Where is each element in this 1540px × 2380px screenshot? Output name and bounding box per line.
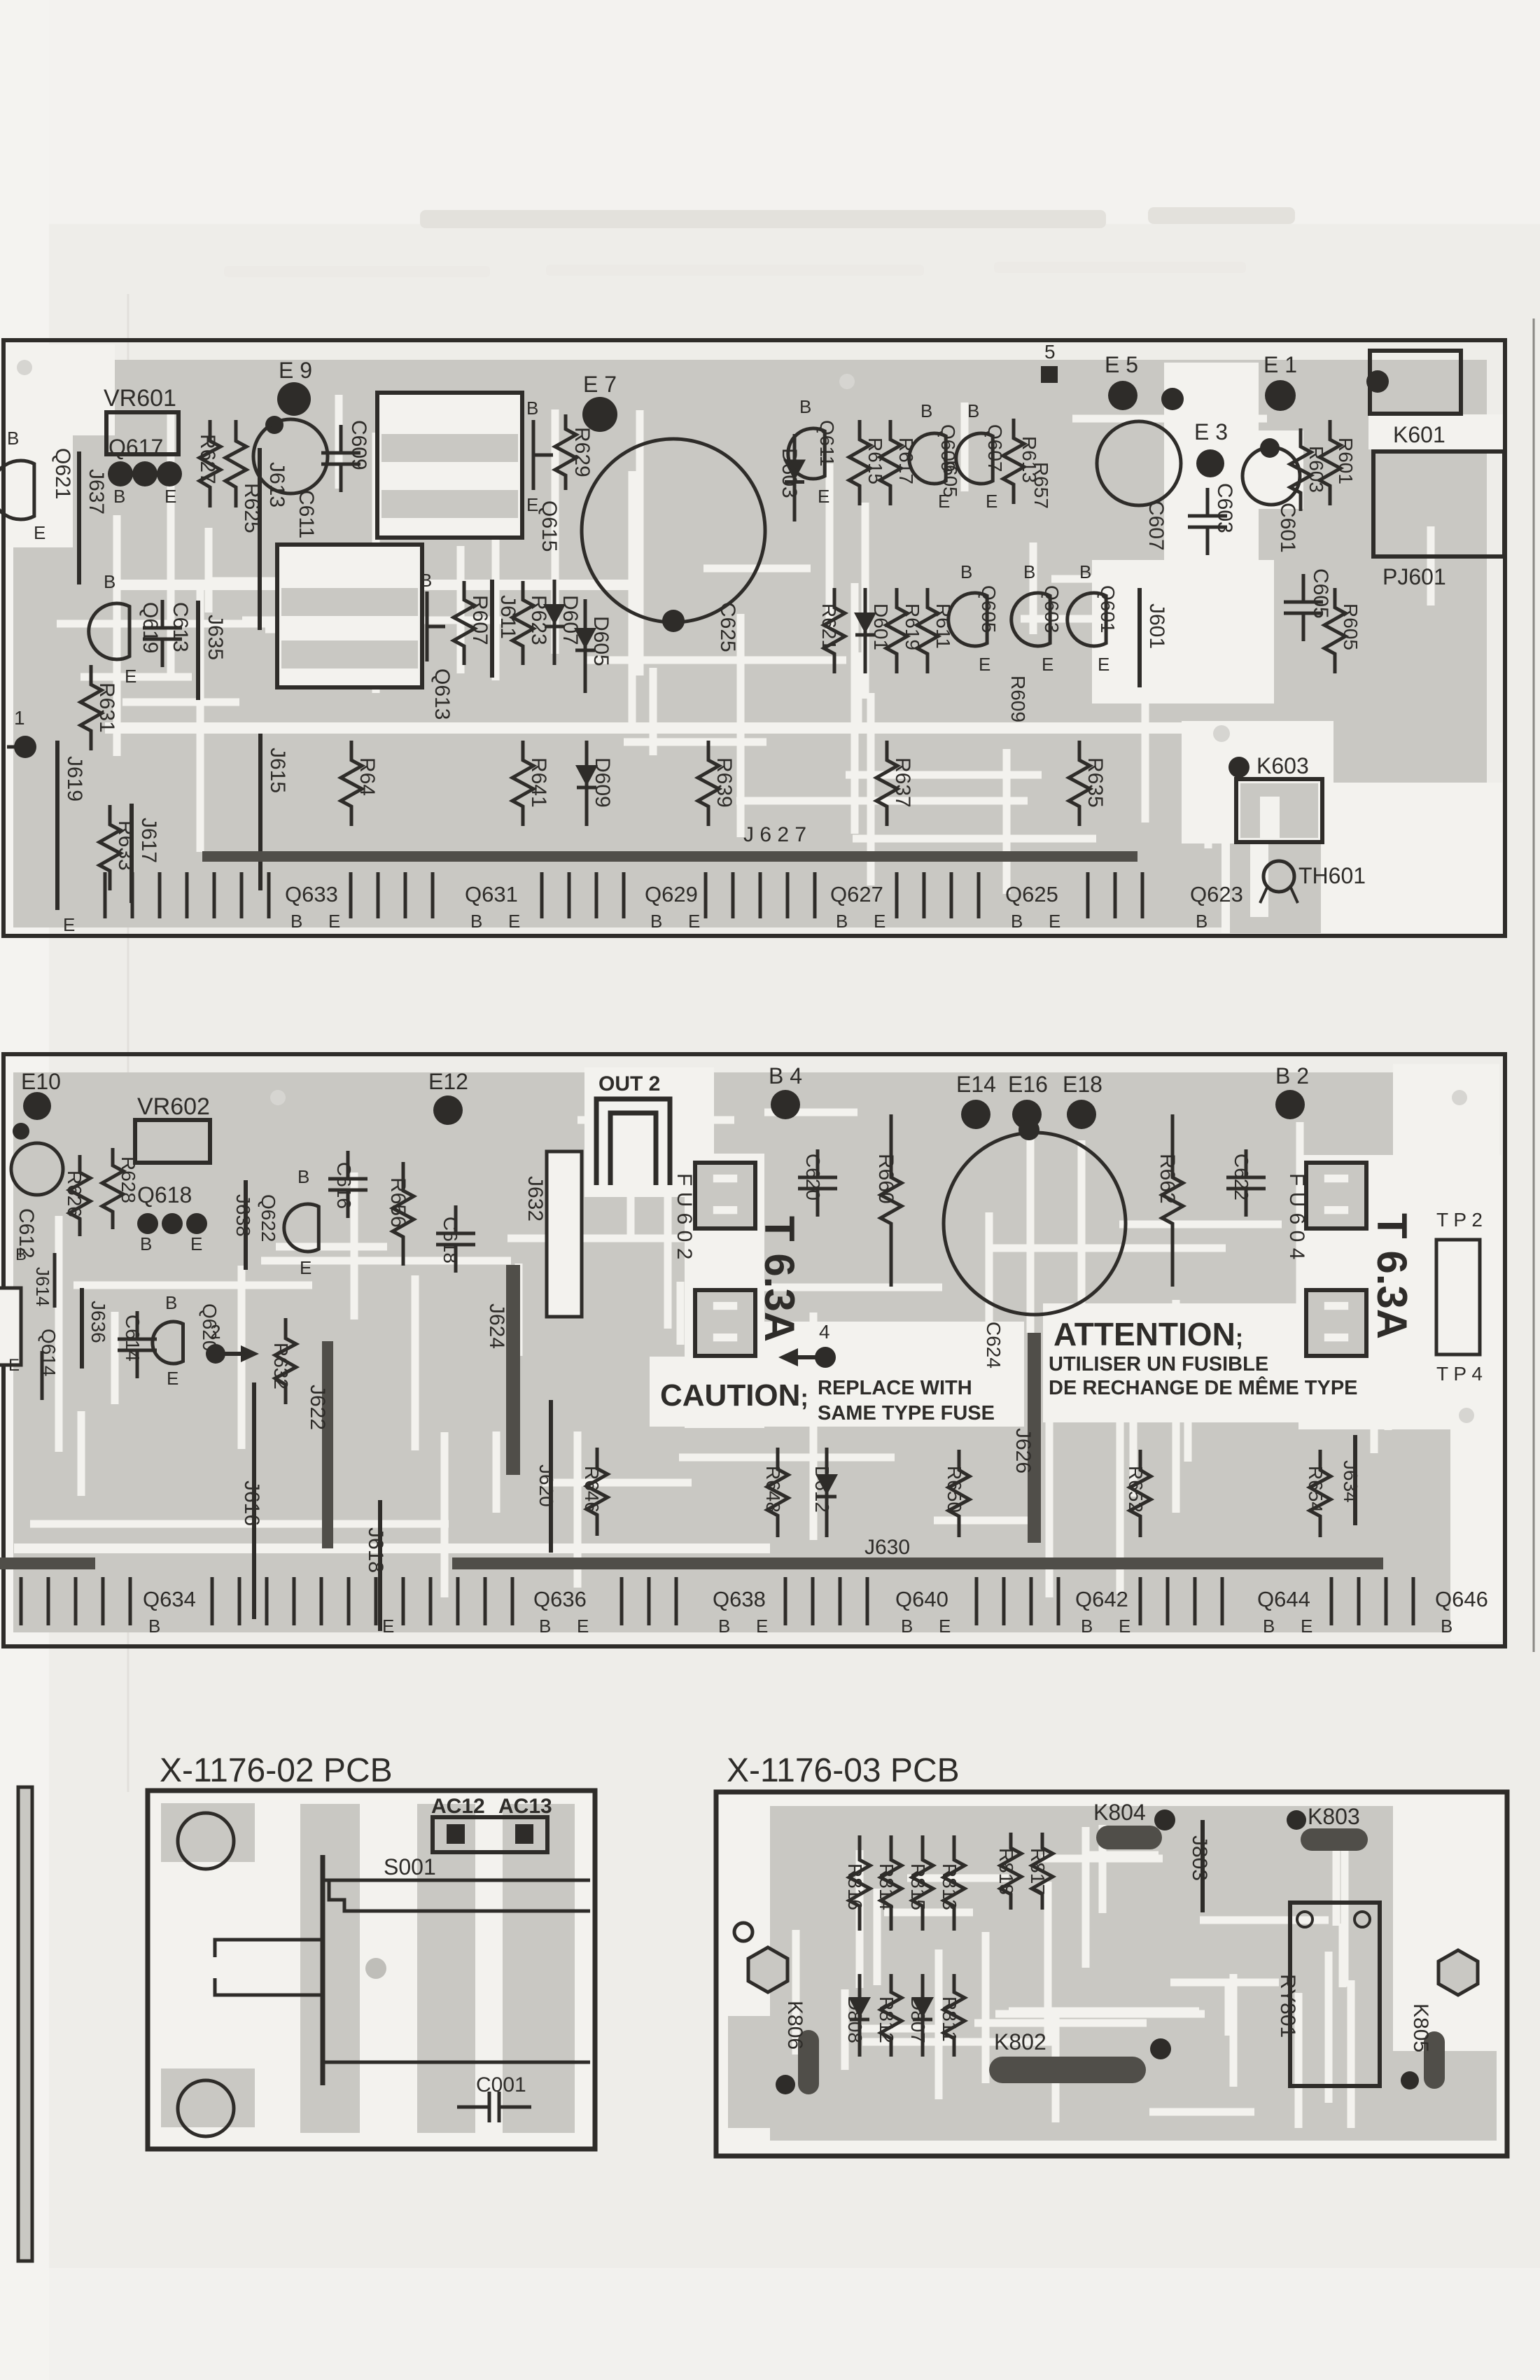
resistor R818	[1000, 1833, 1021, 1910]
dot K802	[1150, 2038, 1171, 2059]
svg-text:D808: D808	[844, 1996, 866, 2043]
svg-text:J630: J630	[864, 1536, 910, 1559]
svg-text:C614: C614	[122, 1315, 143, 1361]
wire J803	[1200, 1820, 1205, 1912]
svg-text:B: B	[526, 398, 538, 419]
bus bar J624	[506, 1265, 520, 1475]
svg-text:E: E	[190, 1233, 202, 1254]
resistor R605	[1324, 588, 1345, 673]
wire J611	[490, 580, 494, 678]
top board white zone below C607	[1092, 560, 1274, 703]
svg-text:R657: R657	[1030, 462, 1052, 509]
svg-text:5: 5	[1044, 341, 1056, 363]
svg-text:R660: R660	[874, 1154, 897, 1204]
via below E10	[13, 1123, 29, 1140]
top board white corner right	[1323, 783, 1502, 933]
svg-text:E: E	[526, 494, 538, 515]
transistor Q617 dot3	[157, 461, 182, 486]
diode D603	[793, 434, 797, 521]
svg-text:D609: D609	[591, 757, 614, 808]
resistor R631	[80, 665, 101, 750]
svg-text:Q601: Q601	[1097, 585, 1119, 633]
wire J614	[53, 1253, 57, 1308]
svg-text:E10: E10	[21, 1069, 61, 1094]
svg-text:R639: R639	[713, 757, 736, 808]
svg-text:E: E	[164, 486, 176, 507]
svg-text:C613: C613	[169, 602, 192, 652]
capacitor C618	[454, 1205, 458, 1233]
diode D607	[553, 580, 556, 665]
bus bar J627	[202, 851, 1137, 862]
svg-text:B: B	[104, 571, 115, 592]
middle board white corner bottom-right	[1450, 1400, 1502, 1641]
copper right spur X03	[1393, 2051, 1497, 2141]
terminal AC12 square	[447, 1824, 465, 1844]
svg-text:ATTENTION;: ATTENTION;	[1053, 1316, 1243, 1352]
wire J634	[1353, 1435, 1357, 1525]
top board white channel mid-left	[119, 580, 637, 590]
resistor R627	[199, 420, 220, 507]
svg-text:E 9: E 9	[279, 358, 312, 383]
relay K603 interior slot	[1260, 797, 1280, 838]
svg-text:Q631: Q631	[465, 882, 518, 906]
cap dot near C601	[1260, 438, 1280, 458]
svg-text:E: E	[508, 911, 520, 932]
scan fold line	[127, 294, 129, 1792]
svg-text:Q621: Q621	[51, 448, 74, 499]
svg-text:B: B	[290, 911, 302, 932]
dot K804	[1154, 1809, 1175, 1830]
test point E16	[1012, 1100, 1042, 1129]
pill K804	[1096, 1826, 1162, 1849]
resistor R813	[944, 1835, 965, 1931]
capacitor C616	[346, 1151, 350, 1179]
diode D808	[858, 1974, 862, 2057]
svg-text:AC13: AC13	[498, 1795, 552, 1818]
wire J637	[77, 451, 81, 584]
svg-text:Q634: Q634	[143, 1587, 196, 1611]
capacitor C605	[1302, 574, 1305, 602]
svg-text:R629: R629	[570, 427, 594, 477]
copper left spur X03	[728, 2016, 770, 2128]
middle board white zone attention	[1043, 1303, 1393, 1422]
svg-text:Q638: Q638	[713, 1587, 766, 1611]
svg-text:F U 6 0 4: F U 6 0 4	[1285, 1173, 1308, 1259]
resistor R635	[1069, 741, 1090, 826]
svg-text:B: B	[148, 1616, 160, 1637]
svg-text:T P 4: T P 4	[1436, 1363, 1483, 1385]
trace bar1 X02	[300, 1804, 360, 2133]
svg-text:B: B	[901, 1616, 913, 1637]
trimmer VR601	[106, 412, 178, 454]
jack PJ601 outline	[1373, 451, 1504, 556]
svg-text:B: B	[1263, 1616, 1275, 1637]
middle board white channel above pinrow	[14, 1543, 770, 1553]
svg-text:D612: D612	[811, 1466, 833, 1513]
svg-text:R632: R632	[270, 1343, 292, 1389]
capacitor C609	[339, 425, 343, 453]
switch S001 wire top	[323, 1879, 590, 1882]
middle board white zone caution2	[650, 1357, 762, 1427]
svg-text:R605: R605	[1340, 603, 1361, 650]
dot K803	[1287, 1810, 1306, 1830]
middle board white zone OUT2	[584, 1067, 714, 1197]
relay RY801 outline	[1290, 1903, 1380, 2086]
hex standoff left	[748, 1947, 787, 1992]
slot J632	[547, 1151, 582, 1317]
diode D612	[825, 1448, 829, 1537]
svg-text:R652: R652	[1125, 1466, 1147, 1513]
thermistor TH601	[1263, 861, 1294, 892]
node 1 wire	[7, 745, 25, 749]
via near K601	[1366, 370, 1389, 393]
resistor R639	[698, 741, 719, 826]
top board routing channels	[492, 476, 500, 680]
top board white pocket left	[6, 344, 73, 547]
svg-text:C616: C616	[333, 1162, 355, 1209]
svg-text:4: 4	[819, 1321, 830, 1343]
svg-text:E16: E16	[1008, 1072, 1048, 1097]
svg-text:C601: C601	[1276, 503, 1299, 553]
wire J613	[258, 448, 262, 630]
svg-text:B: B	[967, 400, 979, 421]
svg-text:Q605: Q605	[978, 585, 1000, 633]
bus bar J622	[322, 1341, 333, 1548]
svg-text:E 1: E 1	[1263, 352, 1297, 377]
svg-text:S001: S001	[384, 1854, 436, 1879]
resistor R812	[881, 1974, 902, 2057]
svg-text:Q613: Q613	[430, 668, 454, 720]
svg-text:Q627: Q627	[830, 882, 883, 906]
svg-text:Q636: Q636	[533, 1587, 587, 1611]
pin row middle board	[20, 1577, 23, 1625]
resistor R617	[880, 420, 901, 505]
capacitor C612	[11, 1143, 63, 1195]
svg-text:VR602: VR602	[137, 1093, 210, 1120]
svg-text:K601: K601	[1393, 422, 1445, 447]
test point E18	[1067, 1100, 1096, 1129]
svg-text:K806: K806	[783, 2001, 806, 2050]
svg-text:R635: R635	[1084, 757, 1107, 808]
wire J620	[549, 1400, 553, 1553]
fuse clip FU604 upper	[1306, 1163, 1366, 1228]
svg-text:1: 1	[14, 707, 25, 729]
node 2 arrow	[216, 1352, 246, 1356]
middle board white corridor FU602	[685, 1154, 764, 1428]
svg-text:CAUTION;: CAUTION;	[660, 1378, 808, 1413]
top board white pocket above K603	[1182, 721, 1333, 843]
svg-text:J624: J624	[485, 1303, 508, 1349]
svg-text:X-1176-02 PCB: X-1176-02 PCB	[160, 1752, 393, 1789]
wire J619	[55, 741, 59, 910]
top board white gap K601 label	[1368, 414, 1503, 449]
svg-text:R637: R637	[891, 757, 914, 808]
switch S001 body	[321, 1855, 325, 2085]
capacitor C625	[582, 439, 765, 622]
via dot f	[1213, 725, 1230, 742]
relay K603 outline	[1236, 779, 1322, 842]
svg-text:J803: J803	[1188, 1835, 1211, 1881]
svg-text:Q618: Q618	[137, 1182, 192, 1207]
svg-text:B: B	[799, 396, 811, 417]
svg-text:R626: R626	[64, 1170, 85, 1217]
transistor Q618 dot2	[162, 1213, 183, 1234]
test point E3	[1196, 449, 1224, 477]
svg-text:Q644: Q644	[1257, 1587, 1310, 1611]
svg-text:R654: R654	[1305, 1466, 1326, 1513]
svg-text:Q625: Q625	[1005, 882, 1058, 906]
svg-text:J632: J632	[524, 1176, 547, 1221]
svg-text:R646: R646	[581, 1466, 603, 1513]
relay K601 outline	[1370, 351, 1461, 414]
resistor R641	[512, 741, 533, 826]
resistor R628	[102, 1148, 123, 1229]
svg-text:E: E	[756, 1616, 768, 1637]
middle board copper base	[13, 1072, 1492, 1632]
svg-text:C618: C618	[440, 1217, 461, 1263]
resistor R650	[948, 1450, 969, 1537]
via near E9	[265, 416, 283, 434]
transformer T602 outline	[277, 545, 422, 687]
svg-text:R814: R814	[876, 1863, 897, 1910]
faint bleedthrough fragment right	[1148, 207, 1295, 224]
svg-text:B: B	[539, 1616, 551, 1637]
resistor R816	[849, 1835, 870, 1931]
fuse clip FU602 lower	[695, 1290, 755, 1356]
svg-text:J617: J617	[137, 818, 160, 863]
dot K805	[1401, 2071, 1419, 2089]
svg-text:Q622: Q622	[258, 1194, 279, 1242]
node 4 dot	[815, 1347, 836, 1368]
svg-text:REPLACE WITH: REPLACE WITH	[818, 1377, 972, 1399]
svg-text:X-1176-03 PCB: X-1176-03 PCB	[727, 1752, 960, 1789]
via dot c	[270, 1090, 286, 1105]
transistor Q621	[0, 461, 34, 519]
connector OUT2 inner	[610, 1113, 656, 1185]
top board copper base	[13, 360, 1487, 927]
svg-text:R64: R64	[356, 757, 379, 796]
resistor R621	[824, 588, 845, 673]
wire J635	[196, 601, 200, 700]
svg-text:E: E	[986, 491, 997, 512]
capacitor C614b lead	[41, 1351, 44, 1400]
resistor R662	[1162, 1114, 1183, 1287]
wire J617	[129, 804, 134, 903]
diode D609	[585, 741, 589, 826]
wire J636	[80, 1288, 84, 1368]
routing channels X03	[1339, 1924, 1347, 1987]
svg-text:E: E	[979, 654, 990, 675]
scan right edge line	[1533, 318, 1535, 1652]
svg-text:E: E	[63, 914, 75, 935]
svg-text:E: E	[8, 1356, 20, 1375]
svg-text:R621: R621	[818, 603, 840, 650]
svg-text:B: B	[113, 486, 125, 507]
svg-text:B: B	[165, 1292, 177, 1313]
top board white channel above resistor row	[105, 722, 1197, 734]
svg-text:J620: J620	[535, 1464, 557, 1507]
svg-text:E: E	[300, 1257, 311, 1278]
terminal AC13 square	[515, 1824, 533, 1844]
top board white zone top-left	[6, 344, 115, 435]
svg-text:C624: C624	[983, 1322, 1004, 1368]
bus bar J630	[452, 1557, 1383, 1569]
switch S001 top lead	[323, 1880, 590, 1911]
svg-text:2: 2	[210, 1321, 221, 1343]
node 5 square	[1041, 366, 1058, 383]
svg-text:B 2: B 2	[1275, 1063, 1309, 1088]
resistor R64	[341, 741, 362, 826]
svg-text:C607: C607	[1144, 500, 1168, 551]
scan top margin highlight	[0, 0, 1540, 224]
transistor Q613 pads	[426, 591, 429, 661]
middle board outline	[3, 1054, 1505, 1646]
svg-text:E: E	[34, 522, 45, 543]
transistor Q618 dot1	[137, 1213, 158, 1234]
transistor Q607	[956, 433, 993, 484]
svg-text:J635: J635	[204, 615, 227, 660]
svg-text:E18: E18	[1063, 1072, 1102, 1097]
svg-text:B: B	[920, 400, 932, 421]
pad top-left X02	[161, 1803, 255, 1862]
hole bottom-left X02	[178, 2080, 234, 2136]
svg-text:C001: C001	[476, 2073, 526, 2096]
svg-text:J637: J637	[85, 469, 108, 514]
resistor R660	[881, 1114, 902, 1287]
svg-text:T 6.3A: T 6.3A	[756, 1216, 803, 1342]
top board white slot under K603	[1250, 843, 1268, 917]
test point B2	[1275, 1090, 1305, 1119]
trimmer VR602	[135, 1120, 210, 1163]
resistor R613	[1003, 419, 1024, 504]
svg-text:C609: C609	[347, 420, 370, 470]
top board white zone E3 column	[1164, 363, 1259, 608]
resistor R652	[1130, 1450, 1151, 1537]
svg-text:E12: E12	[428, 1069, 468, 1094]
node 1 dot	[14, 736, 36, 758]
svg-text:Q611: Q611	[816, 420, 838, 466]
transistor Q618 dot3	[186, 1213, 207, 1234]
svg-text:R811: R811	[939, 1996, 960, 2042]
resistor R603	[1290, 428, 1311, 511]
svg-text:R815: R815	[907, 1863, 929, 1910]
svg-text:B: B	[297, 1166, 309, 1187]
capacitor C001	[457, 2106, 489, 2109]
test point E1	[1265, 380, 1296, 411]
pill K803	[1301, 1828, 1368, 1851]
pill K805	[1424, 2031, 1445, 2089]
svg-text:J 6 2 7: J 6 2 7	[743, 823, 806, 846]
svg-text:E: E	[818, 486, 829, 507]
svg-text:R628: R628	[118, 1156, 139, 1203]
transistor Q615 pads	[532, 420, 535, 490]
resistor R615	[849, 420, 870, 505]
diode D807	[921, 1974, 925, 2057]
svg-text:Q629: Q629	[645, 882, 698, 906]
top board white zone around C601	[1239, 430, 1303, 509]
svg-text:E: E	[577, 1616, 589, 1637]
svg-text:Q633: Q633	[285, 882, 338, 906]
svg-text:J614: J614	[32, 1267, 53, 1306]
svg-text:C603: C603	[1213, 483, 1236, 533]
cap C625 lead dot	[662, 610, 685, 632]
svg-text:R607: R607	[468, 595, 491, 645]
svg-text:R650: R650	[944, 1466, 965, 1513]
bus bar J626	[1028, 1333, 1041, 1543]
faint bleedthrough row2	[224, 266, 490, 277]
svg-text:E: E	[1042, 654, 1053, 675]
svg-text:B: B	[1079, 561, 1091, 582]
svg-text:DE RECHANGE DE MÊME TYPE: DE RECHANGE DE MÊME TYPE	[1049, 1375, 1358, 1399]
svg-text:UTILISER UN FUSIBLE: UTILISER UN FUSIBLE	[1049, 1353, 1268, 1375]
svg-text:J634: J634	[1340, 1460, 1361, 1503]
transistor Q617 dot1	[108, 461, 133, 486]
transformer T601 stripe2	[381, 490, 518, 518]
transistor Q605	[948, 593, 987, 646]
switch S001 prong bracket	[215, 1940, 232, 1995]
svg-text:AC12: AC12	[431, 1795, 485, 1818]
resistor R648	[767, 1448, 788, 1537]
pill K802	[989, 2057, 1146, 2083]
svg-text:B: B	[470, 911, 482, 932]
svg-text:B: B	[140, 1233, 152, 1254]
top board gray column under K603	[1230, 843, 1321, 933]
capacitor C620	[816, 1149, 820, 1177]
resistor R607	[454, 581, 475, 665]
svg-text:Q617: Q617	[108, 435, 163, 460]
svg-text:C620: C620	[802, 1154, 824, 1200]
svg-text:J615: J615	[266, 748, 289, 793]
edge connector middle board	[0, 1288, 21, 1365]
test point E10	[23, 1092, 51, 1120]
hole RY801 b	[1354, 1912, 1370, 1927]
svg-text:K803: K803	[1308, 1804, 1360, 1829]
connector AC outline	[433, 1817, 547, 1852]
hole top-left X02	[178, 1813, 234, 1869]
svg-text:B: B	[1441, 1616, 1452, 1637]
svg-text:J613: J613	[265, 462, 288, 507]
svg-text:K805: K805	[1409, 2003, 1432, 2052]
svg-text:Q646: Q646	[1435, 1587, 1488, 1611]
svg-text:E14: E14	[956, 1072, 996, 1097]
svg-text:R648: R648	[762, 1466, 784, 1513]
svg-text:T 6.3A: T 6.3A	[1368, 1213, 1415, 1339]
svg-text:R818: R818	[995, 1848, 1017, 1895]
resistor R814	[881, 1835, 902, 1931]
cap dot C624	[1018, 1119, 1039, 1140]
resistor R637	[876, 741, 897, 826]
wire J618	[378, 1500, 382, 1631]
svg-text:OUT 2: OUT 2	[598, 1072, 660, 1095]
svg-text:E: E	[688, 911, 700, 932]
hole RY801 a	[1297, 1912, 1312, 1927]
bus bar J630 left	[0, 1557, 95, 1569]
transformer T601 outline	[377, 393, 522, 538]
ring above hex left	[734, 1923, 752, 1941]
svg-text:SAME TYPE FUSE: SAME TYPE FUSE	[818, 1402, 995, 1424]
test pad TP2 rect	[1436, 1240, 1480, 1354]
switch S001 prong1	[232, 1938, 323, 1942]
svg-text:VR601: VR601	[104, 385, 176, 412]
svg-text:J601: J601	[1145, 603, 1168, 649]
svg-text:Q623: Q623	[1190, 882, 1243, 906]
pad bottom-left X02	[161, 2068, 255, 2127]
node 4 arrow	[792, 1355, 825, 1359]
svg-text:B: B	[650, 911, 662, 932]
svg-text:E: E	[328, 911, 340, 932]
capacitor C613	[161, 600, 164, 628]
svg-text:TH601: TH601	[1298, 863, 1366, 888]
